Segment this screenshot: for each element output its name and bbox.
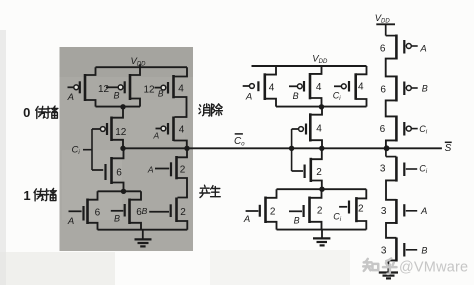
nmos A size 2 (generate branch top, gate A): [155, 156, 177, 179]
wire jog between stacked pmos 4/4: [174, 97, 187, 117]
VDD rail (carry block): [96, 66, 188, 68]
wire jog pmosB-pmosCi: [386, 100, 397, 116]
pmos B size 4 (sum pun parallel, gate B): [289, 73, 310, 99]
wire jog pmosA-pmosB: [386, 59, 397, 77]
wire nmosB source to ground: [388, 260, 396, 271]
net label: kill (xiao-chu): [199, 104, 222, 116]
pmos Ci size 4 (sum pun parallel, gate Ci): [334, 73, 356, 100]
nmos A size 3 (abc series pdn, gate A): [396, 199, 417, 224]
value label 3 (right nmos A): [381, 206, 387, 217]
label Ci (sum nmos): [333, 211, 342, 223]
wire pmos A4 drain post down to output node: [174, 141, 187, 148]
wire series pmos source post up: [310, 107, 322, 115]
wire node line between nmos Ci and nmos pair: [98, 190, 142, 192]
wire nmos A6 posts: [88, 191, 98, 229]
wire pmos A4 posts (sum): [265, 66, 276, 107]
wire pmosCi drain to S_bar node: [386, 140, 397, 148]
wire nmos Ci2 posts (sum): [356, 189, 366, 229]
label A (sum nmos): [243, 214, 250, 225]
wire jog nmosCi-nmosA: [386, 180, 396, 199]
label A (sum pmos): [245, 91, 252, 102]
wire nmos B6 posts: [130, 191, 142, 229]
value label 2 (sum nmos Ci): [358, 204, 364, 215]
junction dot (kill/generate branch): [184, 146, 189, 151]
label Ci (right pmos): [419, 124, 428, 136]
output label S_bar: [445, 142, 452, 154]
nmos A size 6 (1-propagate pair, gate A): [69, 199, 88, 225]
value label 3 (right nmos Ci): [380, 164, 386, 175]
label B (right nmos): [421, 245, 427, 255]
wire pdn pair node line (sum stage): [277, 188, 367, 190]
pmos A size 6 (abc series pun, gate A): [396, 35, 417, 60]
pmos Co_bar size 4 (sum series pmos): [292, 113, 311, 141]
watermark @VMware: [399, 260, 468, 276]
wire pmos B4 posts (sum): [310, 66, 322, 107]
wire Ci input lead and gate vertical: [83, 129, 92, 170]
value label 6 (nmos Ci): [116, 168, 122, 179]
wire pmos A source/drain posts: [85, 67, 96, 106]
wire nmos B2 posts (sum): [310, 189, 322, 229]
label B (sum pmos): [293, 91, 299, 101]
pmos B size 12 (0-propagate pair, gate B): [106, 74, 130, 100]
value label 2 (nmos B): [180, 207, 186, 218]
wire series nmos drain post up: [311, 148, 322, 159]
nmos A size 2 (sum pdn parallel, gate A): [246, 197, 266, 224]
junction dot (series pmos drain on Co_bar net): [319, 146, 324, 151]
watermark zhihu logo text: [363, 258, 396, 273]
ground rail (sum stage): [277, 229, 367, 231]
junction dot (sum pun node): [319, 104, 324, 109]
junction dot (nmos node): [121, 189, 126, 194]
nmos Ci size 3 (abc series pdn, gate Ci): [396, 157, 417, 182]
net label: 1 propagate (1 chuan-bo): [23, 188, 56, 203]
wire pmos B posts: [130, 64, 140, 106]
label A (gate of pmos 12): [67, 92, 74, 103]
wire Co_bar output net (long horizontal): [123, 147, 442, 149]
value label 2 (series nmos): [316, 167, 322, 178]
label Ci (sum pmos): [333, 90, 342, 102]
label B (right pmos): [422, 84, 428, 94]
node label Co_bar: [234, 134, 245, 147]
wire jog nmosA-nmosB: [386, 223, 396, 238]
label A (gate of nmos 2 top): [147, 164, 154, 174]
wire nmos A2 posts (sum): [266, 189, 277, 229]
value label 4 (sum pmos B): [316, 82, 322, 93]
wire pmos B4 source post to rail: [174, 67, 188, 76]
label A (gate of nmos 6): [67, 216, 74, 227]
value label 6 (right pmos A): [380, 44, 386, 55]
value label 6 (nmos B): [136, 207, 142, 218]
wire pmos Ci source post up: [112, 107, 124, 118]
label B (gate of pmos 4 top): [158, 89, 164, 99]
ground rail (carry block): [98, 229, 188, 231]
nmos Ci size 6 (gate Ci): [92, 157, 112, 184]
net label: 0 propagate (0 chuan-bo): [23, 105, 58, 120]
wire nmos Ci drain post up to output node: [112, 148, 124, 158]
wire pun pair node line (sum stage): [276, 106, 367, 108]
value label 6 (right pmos Ci): [380, 124, 386, 135]
nmos B size 3 (abc series pdn, gate B): [396, 238, 417, 262]
carry gate block gray background: [60, 47, 194, 251]
pmos B size 4 (kill branch top, gate B): [155, 75, 174, 98]
value label 6 (right pmos B): [380, 85, 386, 96]
wire series nmos source post down: [311, 181, 322, 190]
label B (gate of nmos 6): [114, 213, 120, 223]
label A (right nmos): [420, 206, 427, 217]
value label 2 (sum nmos B): [317, 205, 323, 216]
junction dot (carry block output): [120, 146, 125, 151]
junction dot (sum pdn node): [319, 187, 324, 192]
VDD stub bar (right column): [376, 24, 395, 35]
wire nmos Ci source post down: [112, 183, 124, 192]
label B (sum nmos): [294, 216, 300, 226]
wire S_bar node down to nmos chain: [386, 148, 397, 156]
wire jog between stacked nmos 2/2: [177, 178, 188, 198]
pmos A size 4 (kill branch bottom, gate A): [156, 117, 174, 142]
value label 4 (pmos B kill): [178, 84, 184, 95]
wire nmos A2 drain post up to output node: [177, 150, 188, 157]
value label 12 (pmos A): [98, 84, 110, 95]
net label: generate (chan-sheng): [200, 185, 220, 197]
VDD rail (sum stage): [252, 65, 367, 67]
value label 12 (pmos Ci): [115, 127, 127, 138]
nmos B size 2 (sum pdn parallel, gate B): [289, 197, 310, 224]
pmos A size 12 (0-propagate pair, gate A): [68, 74, 86, 101]
junction dot (S_bar node): [384, 145, 390, 151]
junction dot (gate tap on Co_bar net): [289, 146, 294, 151]
value label 4 (sum pmos Ci): [358, 82, 364, 93]
power label VDD (right column): [375, 13, 391, 25]
nmos Ci size 2 (sum pdn parallel, gate Ci): [339, 197, 356, 222]
wire intermediate node line (pmos pair to Ci pmos): [96, 106, 141, 108]
value label 4 (series pmos): [316, 124, 322, 135]
value label 4 (pmos A kill): [179, 125, 185, 136]
wire series pmos drain post down: [310, 140, 322, 148]
wire nmos B2 source post down to ground rail: [177, 221, 188, 230]
label B (gate of pmos 12): [113, 90, 119, 100]
label A (gate of pmos 4 bottom): [152, 130, 159, 140]
pmos Ci size 12 (gate Ci): [92, 117, 112, 142]
value label 4 (sum pmos A): [269, 83, 275, 94]
ground symbol (sum stage): [313, 230, 330, 246]
wire pmos Ci drain post down: [112, 140, 124, 149]
label B (gate of nmos 2 bottom): [142, 206, 148, 216]
nmos Co_bar size 2 (sum series nmos): [292, 158, 311, 182]
value label 6 (nmos A): [95, 207, 101, 218]
input Ci label (carry block): [72, 144, 81, 156]
nmos B size 2 (generate branch bottom, gate B): [149, 198, 176, 223]
pmos A size 4 (sum pun parallel, gate A): [243, 73, 265, 100]
label A (right pmos): [419, 44, 426, 55]
ground symbol (carry block): [135, 230, 152, 247]
value label 3 (right nmos B): [381, 246, 387, 257]
junction dot on pair node: [120, 104, 125, 109]
nmos B size 6 (1-propagate pair, gate B): [111, 199, 130, 225]
value label 2 (nmos A): [180, 164, 186, 175]
label Ci (right nmos): [419, 163, 428, 175]
pmos Ci size 6 (abc series pun, gate Ci): [396, 116, 417, 142]
wire pmos Ci4 posts (sum): [356, 66, 367, 107]
power label VDD (sum stage): [312, 54, 328, 66]
wire stub pmosA top: [386, 35, 397, 37]
value label 12 (pmos B): [143, 84, 155, 95]
pmos B size 6 (abc series pun, gate B): [396, 76, 417, 102]
svg-text:@VMware: @VMware: [399, 260, 468, 276]
value label 2 (sum nmos A): [270, 206, 276, 217]
power label VDD (carry block): [131, 56, 147, 68]
ground symbol (right column): [379, 273, 398, 279]
wire Co_bar gate tap vertical: [291, 129, 293, 171]
